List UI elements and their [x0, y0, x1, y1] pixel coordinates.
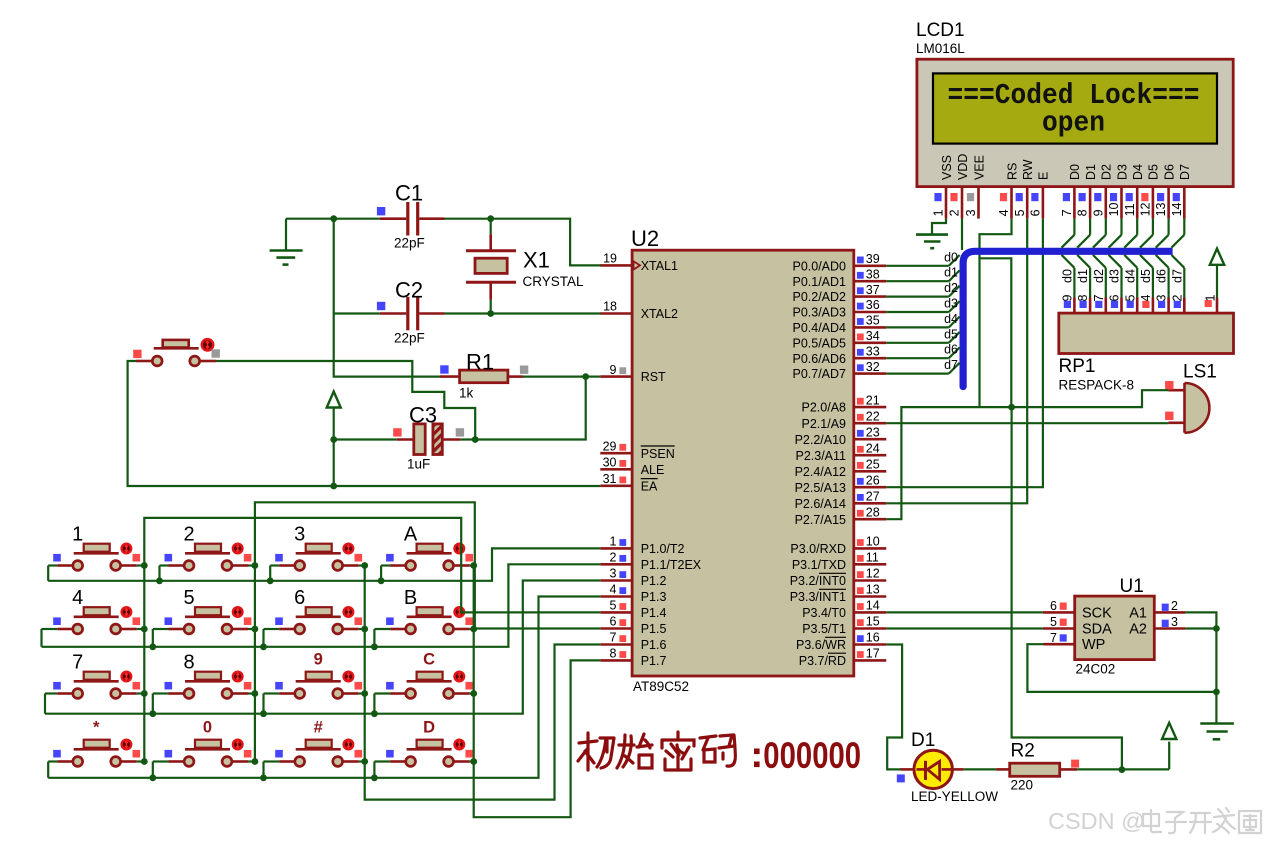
node	[260, 643, 267, 650]
wire	[359, 628, 365, 630]
svg-text:4: 4	[610, 583, 617, 597]
U2 pin 11 P3.1/TXD	[792, 551, 886, 572]
push button key 4	[53, 587, 140, 634]
node	[470, 562, 477, 569]
svg-text:16: 16	[866, 631, 880, 645]
svg-text:11: 11	[866, 551, 879, 565]
wire keypad row 2 bus	[42, 564, 601, 647]
push button key 9	[275, 651, 362, 699]
svg-text:XTAL1: XTAL1	[641, 259, 678, 273]
LCD pin 12 D5	[1139, 164, 1161, 219]
push button key D	[386, 719, 473, 767]
U1 pin 5 SDA	[1043, 615, 1075, 629]
wire RP1 pin 3 bus entry d6	[1155, 255, 1169, 313]
svg-text:1: 1	[1204, 295, 1218, 302]
wire	[445, 218, 491, 220]
U2 pin 27 P2.6/A14	[795, 490, 887, 511]
svg-text:P2.2/A10: P2.2/A10	[795, 433, 846, 447]
svg-text:29: 29	[603, 439, 617, 453]
node R2 junction	[1119, 766, 1126, 773]
wire P0.1 bus entry d1	[886, 266, 959, 282]
wire	[374, 692, 390, 694]
wire	[586, 376, 601, 378]
svg-text:CSDN @: CSDN @	[1048, 808, 1145, 834]
node	[149, 710, 156, 717]
node C3-left junction	[330, 436, 337, 443]
svg-text:P1.2: P1.2	[641, 574, 667, 588]
ground (U1)	[1200, 724, 1234, 740]
svg-text:37: 37	[866, 283, 880, 297]
node	[252, 690, 259, 697]
wire	[264, 628, 280, 630]
U2 pin 1 P1.0/T2	[600, 535, 684, 556]
svg-text:D7: D7	[1178, 164, 1192, 180]
wire RP1 pin 7 bus entry d2	[1092, 255, 1106, 313]
push button key B	[386, 587, 473, 634]
svg-text:12: 12	[1139, 202, 1153, 216]
svg-text:9: 9	[610, 363, 617, 377]
wire C3 to RST node	[461, 377, 586, 440]
U1 pin 7 WP	[1044, 631, 1075, 645]
wire RS down to P2.7 rail	[980, 219, 1012, 408]
svg-text:3: 3	[964, 209, 978, 216]
svg-text:P1.1/T2EX: P1.1/T2EX	[641, 558, 702, 572]
node C1-right junction	[487, 215, 494, 222]
svg-text:d7: d7	[944, 358, 958, 372]
resistor R1	[440, 350, 528, 401]
wire WP to ground rail	[1027, 644, 1216, 692]
U2 pin 24 P2.3/A11	[795, 441, 886, 462]
wire	[42, 628, 58, 630]
svg-text:000000: 000000	[763, 735, 861, 776]
svg-text:P1.7: P1.7	[641, 654, 667, 668]
svg-text:open: open	[1042, 107, 1105, 140]
U2 pin 28 P2.7/A15	[795, 505, 887, 526]
svg-text:C1: C1	[395, 181, 423, 206]
wire P2.7 rail to LS1+	[886, 390, 1168, 519]
wire C1C2 column to R1	[334, 219, 440, 377]
LCD pin 11 D4	[1123, 164, 1145, 219]
wire	[248, 692, 255, 694]
wire	[137, 628, 145, 630]
push button key 1	[53, 524, 140, 571]
svg-text:27: 27	[866, 490, 880, 504]
svg-text:P3.5/T1: P3.5/T1	[802, 622, 846, 636]
node	[260, 710, 267, 717]
svg-text:7: 7	[610, 631, 617, 645]
svg-text:R2: R2	[1011, 741, 1035, 762]
wire	[381, 564, 390, 566]
svg-text:P1.4: P1.4	[641, 606, 667, 620]
wire RS link	[980, 258, 1012, 407]
svg-text:RW: RW	[1021, 159, 1035, 180]
wire P2.7 rail down to R2 node	[1012, 407, 1122, 769]
node C2-right junction	[487, 310, 494, 317]
svg-text:#: #	[314, 719, 323, 737]
svg-text:3: 3	[610, 567, 617, 581]
wire P3.5 to SDA	[886, 627, 1043, 629]
wire LCD D3 bus entry	[1109, 219, 1122, 248]
svg-text:21: 21	[866, 393, 880, 407]
svg-text:23: 23	[866, 425, 880, 439]
svg-text:P0.5/AD5: P0.5/AD5	[792, 336, 846, 350]
svg-text:D5: D5	[1147, 164, 1161, 180]
push button key 7	[53, 652, 140, 699]
svg-text:9: 9	[314, 651, 323, 669]
wire LCD D4 bus entry	[1124, 219, 1137, 248]
svg-text:P1.3: P1.3	[641, 590, 667, 604]
svg-text:P3.0/RXD: P3.0/RXD	[790, 542, 846, 556]
wire	[523, 376, 586, 378]
U2 pin 10 P3.0/RXD	[790, 535, 886, 556]
wire keypad column 1 to P1.4	[144, 518, 600, 762]
U2 pin 39 P0.0/AD0	[792, 252, 886, 273]
svg-text:LS1: LS1	[1183, 362, 1217, 383]
wire	[137, 692, 145, 694]
node	[470, 690, 477, 697]
wire RP1 pin 2 bus entry d7	[1170, 255, 1184, 313]
node RS/P2.7 junction	[1008, 404, 1015, 411]
svg-text:11: 11	[1123, 203, 1137, 216]
svg-text:D4: D4	[1131, 164, 1145, 180]
svg-text:1: 1	[932, 209, 946, 216]
svg-text:14: 14	[1170, 202, 1184, 216]
capacitor C3 (polarized)	[393, 403, 464, 472]
U2 pin 29 PSEN	[600, 439, 674, 460]
node	[141, 626, 148, 633]
svg-text:9: 9	[1061, 295, 1075, 302]
U2 pin 17 P3.7/RD	[799, 647, 887, 668]
wire	[264, 760, 280, 762]
svg-text:15: 15	[866, 615, 880, 629]
svg-text:38: 38	[866, 267, 880, 281]
wire	[963, 768, 996, 770]
U2 pin 32 P0.7/AD7	[792, 360, 886, 381]
wire	[359, 760, 365, 762]
svg-text:P0.2/AD2: P0.2/AD2	[792, 290, 846, 304]
svg-text:d4: d4	[1123, 269, 1137, 283]
wire to XTAL2	[491, 312, 601, 314]
svg-text:VEE: VEE	[972, 155, 986, 180]
svg-text:P3.1/TXD: P3.1/TXD	[792, 558, 846, 572]
svg-text:39: 39	[866, 252, 880, 266]
wire	[153, 692, 169, 694]
U2 pin 21 P2.0/A8	[802, 393, 887, 414]
node	[361, 758, 368, 765]
svg-text:3: 3	[294, 524, 305, 546]
LCD1 LM016L display	[916, 20, 1233, 187]
svg-text:E: E	[1037, 172, 1051, 180]
wire RW down to P2.6	[886, 219, 1027, 504]
node	[141, 562, 148, 569]
LCD pin 14 D7	[1170, 164, 1192, 219]
node	[141, 758, 148, 765]
wire	[153, 628, 169, 630]
svg-text:5: 5	[1013, 209, 1027, 216]
resistor R2	[952, 741, 1079, 793]
svg-text:28: 28	[866, 505, 880, 519]
U2 pin 25 P2.4/A12	[795, 458, 887, 479]
svg-text:22: 22	[866, 409, 880, 423]
svg-text:25: 25	[866, 458, 880, 472]
op-amp U2 AT89C52 body	[631, 226, 854, 694]
node	[371, 774, 378, 781]
LCD pin 13 D6	[1154, 164, 1176, 219]
capacitor C1	[377, 181, 445, 251]
wire	[334, 438, 397, 440]
wire	[153, 760, 169, 762]
svg-text:5: 5	[183, 587, 194, 609]
wire keypad row 4 bus	[48, 597, 600, 778]
svg-text:P3.2/INT0: P3.2/INT0	[790, 574, 846, 588]
svg-text:d3: d3	[1108, 269, 1122, 283]
svg-text:C2: C2	[395, 278, 423, 303]
svg-text:D1: D1	[911, 730, 935, 751]
wire RP1 pin 9 bus entry d0	[1061, 255, 1075, 313]
U2 pin 23 P2.2/A10	[795, 425, 887, 446]
wire P0.4 bus entry d4	[886, 312, 959, 328]
svg-text:B: B	[404, 587, 417, 609]
svg-text:LM016L: LM016L	[916, 41, 965, 56]
LCD pin 5 RW	[1013, 159, 1035, 218]
svg-text:A: A	[404, 524, 418, 546]
svg-text:P2.3/A11: P2.3/A11	[795, 449, 846, 463]
wire button-right zigzag to C3	[216, 361, 475, 440]
svg-text:2: 2	[1171, 599, 1178, 613]
svg-text:P0.0/AD0: P0.0/AD0	[792, 259, 846, 273]
U1 pin 2 A1	[1154, 599, 1185, 613]
U2 pin 19 XTAL1	[600, 252, 678, 273]
svg-text:SDA: SDA	[1082, 621, 1112, 637]
U2 pin 14 P3.4/T0	[802, 599, 886, 620]
wire	[45, 692, 57, 694]
wire	[248, 564, 255, 566]
svg-text:5: 5	[1050, 615, 1057, 629]
svg-text:1k: 1k	[459, 386, 474, 401]
svg-text:19: 19	[603, 252, 617, 266]
ground (crystal caps)	[270, 219, 303, 265]
U2 pin 7 P1.6	[600, 631, 666, 652]
watermark CSDN	[1048, 808, 1261, 834]
U2 pin 16 P3.6/WR	[796, 631, 886, 652]
wire RP1 pin 4 bus entry d5	[1139, 255, 1153, 313]
wire LCD D5 bus entry	[1140, 219, 1153, 248]
wire	[470, 564, 474, 566]
push button key 3	[275, 524, 362, 571]
node C3-right junction	[472, 436, 479, 443]
node	[149, 643, 156, 650]
svg-text:d4: d4	[944, 312, 958, 326]
svg-text:R1: R1	[466, 350, 494, 375]
U2 pin 33 P0.6/AD6	[792, 344, 886, 365]
svg-text:220: 220	[1011, 778, 1034, 793]
svg-text:d5: d5	[944, 327, 958, 341]
node	[371, 710, 378, 717]
svg-text:7: 7	[1060, 209, 1074, 216]
svg-text:7: 7	[72, 652, 83, 674]
U2 pin 37 P0.2/AD2	[792, 283, 886, 304]
svg-text:d2: d2	[1092, 269, 1106, 283]
U2 pin 30 ALE	[600, 456, 664, 477]
svg-text:9: 9	[1091, 209, 1105, 216]
svg-text:*: *	[93, 719, 100, 737]
svg-text:1: 1	[72, 524, 83, 546]
wire P0.7 bus entry d7	[886, 358, 959, 374]
push button key 0	[165, 719, 252, 767]
node RST junction	[582, 373, 589, 380]
node	[470, 758, 477, 765]
svg-text:SCK: SCK	[1082, 606, 1112, 622]
svg-text:D3: D3	[1115, 164, 1129, 180]
LED D1 LED-YELLOW	[897, 730, 998, 804]
svg-text:RP1: RP1	[1059, 356, 1096, 377]
resistor pack RP1 RESPACK-8	[1059, 313, 1234, 392]
node	[267, 577, 274, 584]
svg-text:24: 24	[866, 441, 880, 455]
svg-text:LCD1: LCD1	[916, 20, 965, 41]
svg-text:P2.1/A9: P2.1/A9	[802, 417, 847, 431]
svg-text:0: 0	[203, 719, 212, 737]
U2 pin 34 P0.5/AD5	[792, 329, 886, 350]
push button key 5	[165, 587, 252, 634]
svg-text:D: D	[423, 719, 435, 737]
svg-text:6: 6	[1050, 599, 1057, 613]
svg-text:8: 8	[610, 647, 617, 661]
svg-text:U2: U2	[631, 226, 659, 251]
node	[378, 577, 385, 584]
wire E down to P2.5	[886, 219, 1043, 488]
wire keypad column 3 to P1.6	[365, 566, 601, 800]
wire	[264, 692, 280, 694]
crystal X1	[466, 219, 584, 314]
node	[361, 562, 368, 569]
LCD pin 9 D2	[1091, 164, 1113, 219]
svg-text:2: 2	[610, 551, 617, 565]
wire P0.2 bus entry d2	[886, 281, 959, 297]
svg-text:d6: d6	[1155, 269, 1169, 283]
svg-text:RESPACK-8: RESPACK-8	[1059, 378, 1135, 393]
svg-text:d1: d1	[944, 266, 958, 280]
U2 pin 2 P1.1/T2EX	[600, 551, 702, 572]
svg-text:34: 34	[866, 329, 880, 343]
U2 pin 12 P3.2/INT0	[790, 567, 887, 588]
svg-text:8: 8	[1076, 209, 1090, 216]
wire VDD power stub	[961, 219, 963, 250]
wire	[248, 760, 255, 762]
U2 pin 36 P0.3/AD3	[792, 298, 886, 319]
svg-text:35: 35	[866, 314, 880, 328]
push button RESET	[133, 339, 220, 366]
svg-text:P3.3/INT1: P3.3/INT1	[790, 590, 846, 604]
svg-text:1uF: 1uF	[407, 457, 430, 472]
svg-text:18: 18	[603, 300, 617, 314]
node WP junction	[1213, 689, 1220, 696]
svg-text:AT89C52: AT89C52	[633, 679, 689, 694]
svg-text:U1: U1	[1120, 576, 1144, 597]
U1 pin 3 A2	[1154, 615, 1185, 629]
capacitor C2	[377, 278, 445, 346]
U1 pin 6 SCK	[1043, 599, 1075, 613]
svg-text:13: 13	[1154, 202, 1168, 216]
U2 pin 22 P2.1/A9	[802, 409, 887, 430]
wire	[286, 218, 334, 220]
push button key 2	[165, 524, 252, 571]
svg-text:P1.0/T2: P1.0/T2	[641, 542, 685, 556]
wire P3.4 to SCK	[886, 611, 1043, 613]
svg-text:P1.5: P1.5	[641, 622, 667, 636]
wire	[1077, 768, 1169, 770]
svg-text:CRYSTAL: CRYSTAL	[523, 274, 585, 289]
svg-text:17: 17	[866, 647, 880, 661]
LCD pin 10 D3	[1107, 164, 1129, 219]
svg-text:A2: A2	[1129, 621, 1147, 637]
svg-text:VDD: VDD	[956, 154, 970, 180]
svg-text:d0: d0	[944, 250, 958, 264]
push button key A	[386, 524, 473, 571]
svg-text:d1: d1	[1076, 269, 1090, 283]
wire	[48, 760, 57, 762]
U2 pin 3 P1.2	[600, 567, 666, 588]
svg-text:D6: D6	[1162, 164, 1176, 180]
wire P0.0 bus entry d0	[886, 250, 959, 266]
wire	[374, 628, 390, 630]
wire	[470, 760, 474, 762]
svg-text:P1.6: P1.6	[641, 638, 667, 652]
wire RP1 pin 8 bus entry d1	[1076, 255, 1090, 313]
svg-text:32: 32	[866, 360, 880, 374]
svg-text:5: 5	[1123, 295, 1137, 302]
svg-text:P2.6/A14: P2.6/A14	[795, 497, 846, 511]
svg-text:14: 14	[866, 599, 880, 613]
wire	[137, 760, 145, 762]
svg-text:4: 4	[1139, 295, 1153, 302]
svg-text:RST: RST	[641, 370, 666, 384]
wire button-left to EA rail	[128, 361, 601, 486]
svg-text:d3: d3	[944, 297, 958, 311]
node	[156, 577, 163, 584]
svg-text:13: 13	[866, 583, 880, 597]
svg-text:D0: D0	[1068, 164, 1082, 180]
bus data d0-d7	[963, 251, 1173, 386]
node	[260, 774, 267, 781]
svg-text:7: 7	[1092, 295, 1106, 302]
node	[361, 626, 368, 633]
power arrow VCC (R2)	[1162, 723, 1176, 770]
svg-text:22pF: 22pF	[394, 236, 425, 251]
node A2 junction	[1213, 625, 1220, 632]
svg-text:6: 6	[1029, 209, 1043, 216]
wire keypad column 4 to P1.7	[474, 566, 601, 818]
svg-text:12: 12	[866, 567, 880, 581]
svg-text:2: 2	[183, 524, 194, 546]
svg-text:P3.6/WR: P3.6/WR	[796, 638, 846, 652]
svg-text:P3.7/RD: P3.7/RD	[799, 654, 846, 668]
svg-text:LED-YELLOW: LED-YELLOW	[911, 789, 998, 804]
wire RP1 pin 5 bus entry d4	[1123, 255, 1137, 313]
svg-text:8: 8	[183, 652, 194, 674]
svg-text:d0: d0	[1061, 269, 1075, 283]
svg-text:33: 33	[866, 344, 880, 358]
node	[371, 643, 378, 650]
wire A1 to ground rail	[1185, 612, 1216, 723]
wire	[137, 564, 145, 566]
svg-text:5: 5	[610, 599, 617, 613]
U2 pin 38 P0.1/AD1	[792, 267, 886, 288]
svg-text:D2: D2	[1100, 164, 1114, 180]
push button key 8	[165, 652, 252, 699]
svg-text:d6: d6	[944, 343, 958, 357]
svg-text:26: 26	[866, 473, 880, 487]
